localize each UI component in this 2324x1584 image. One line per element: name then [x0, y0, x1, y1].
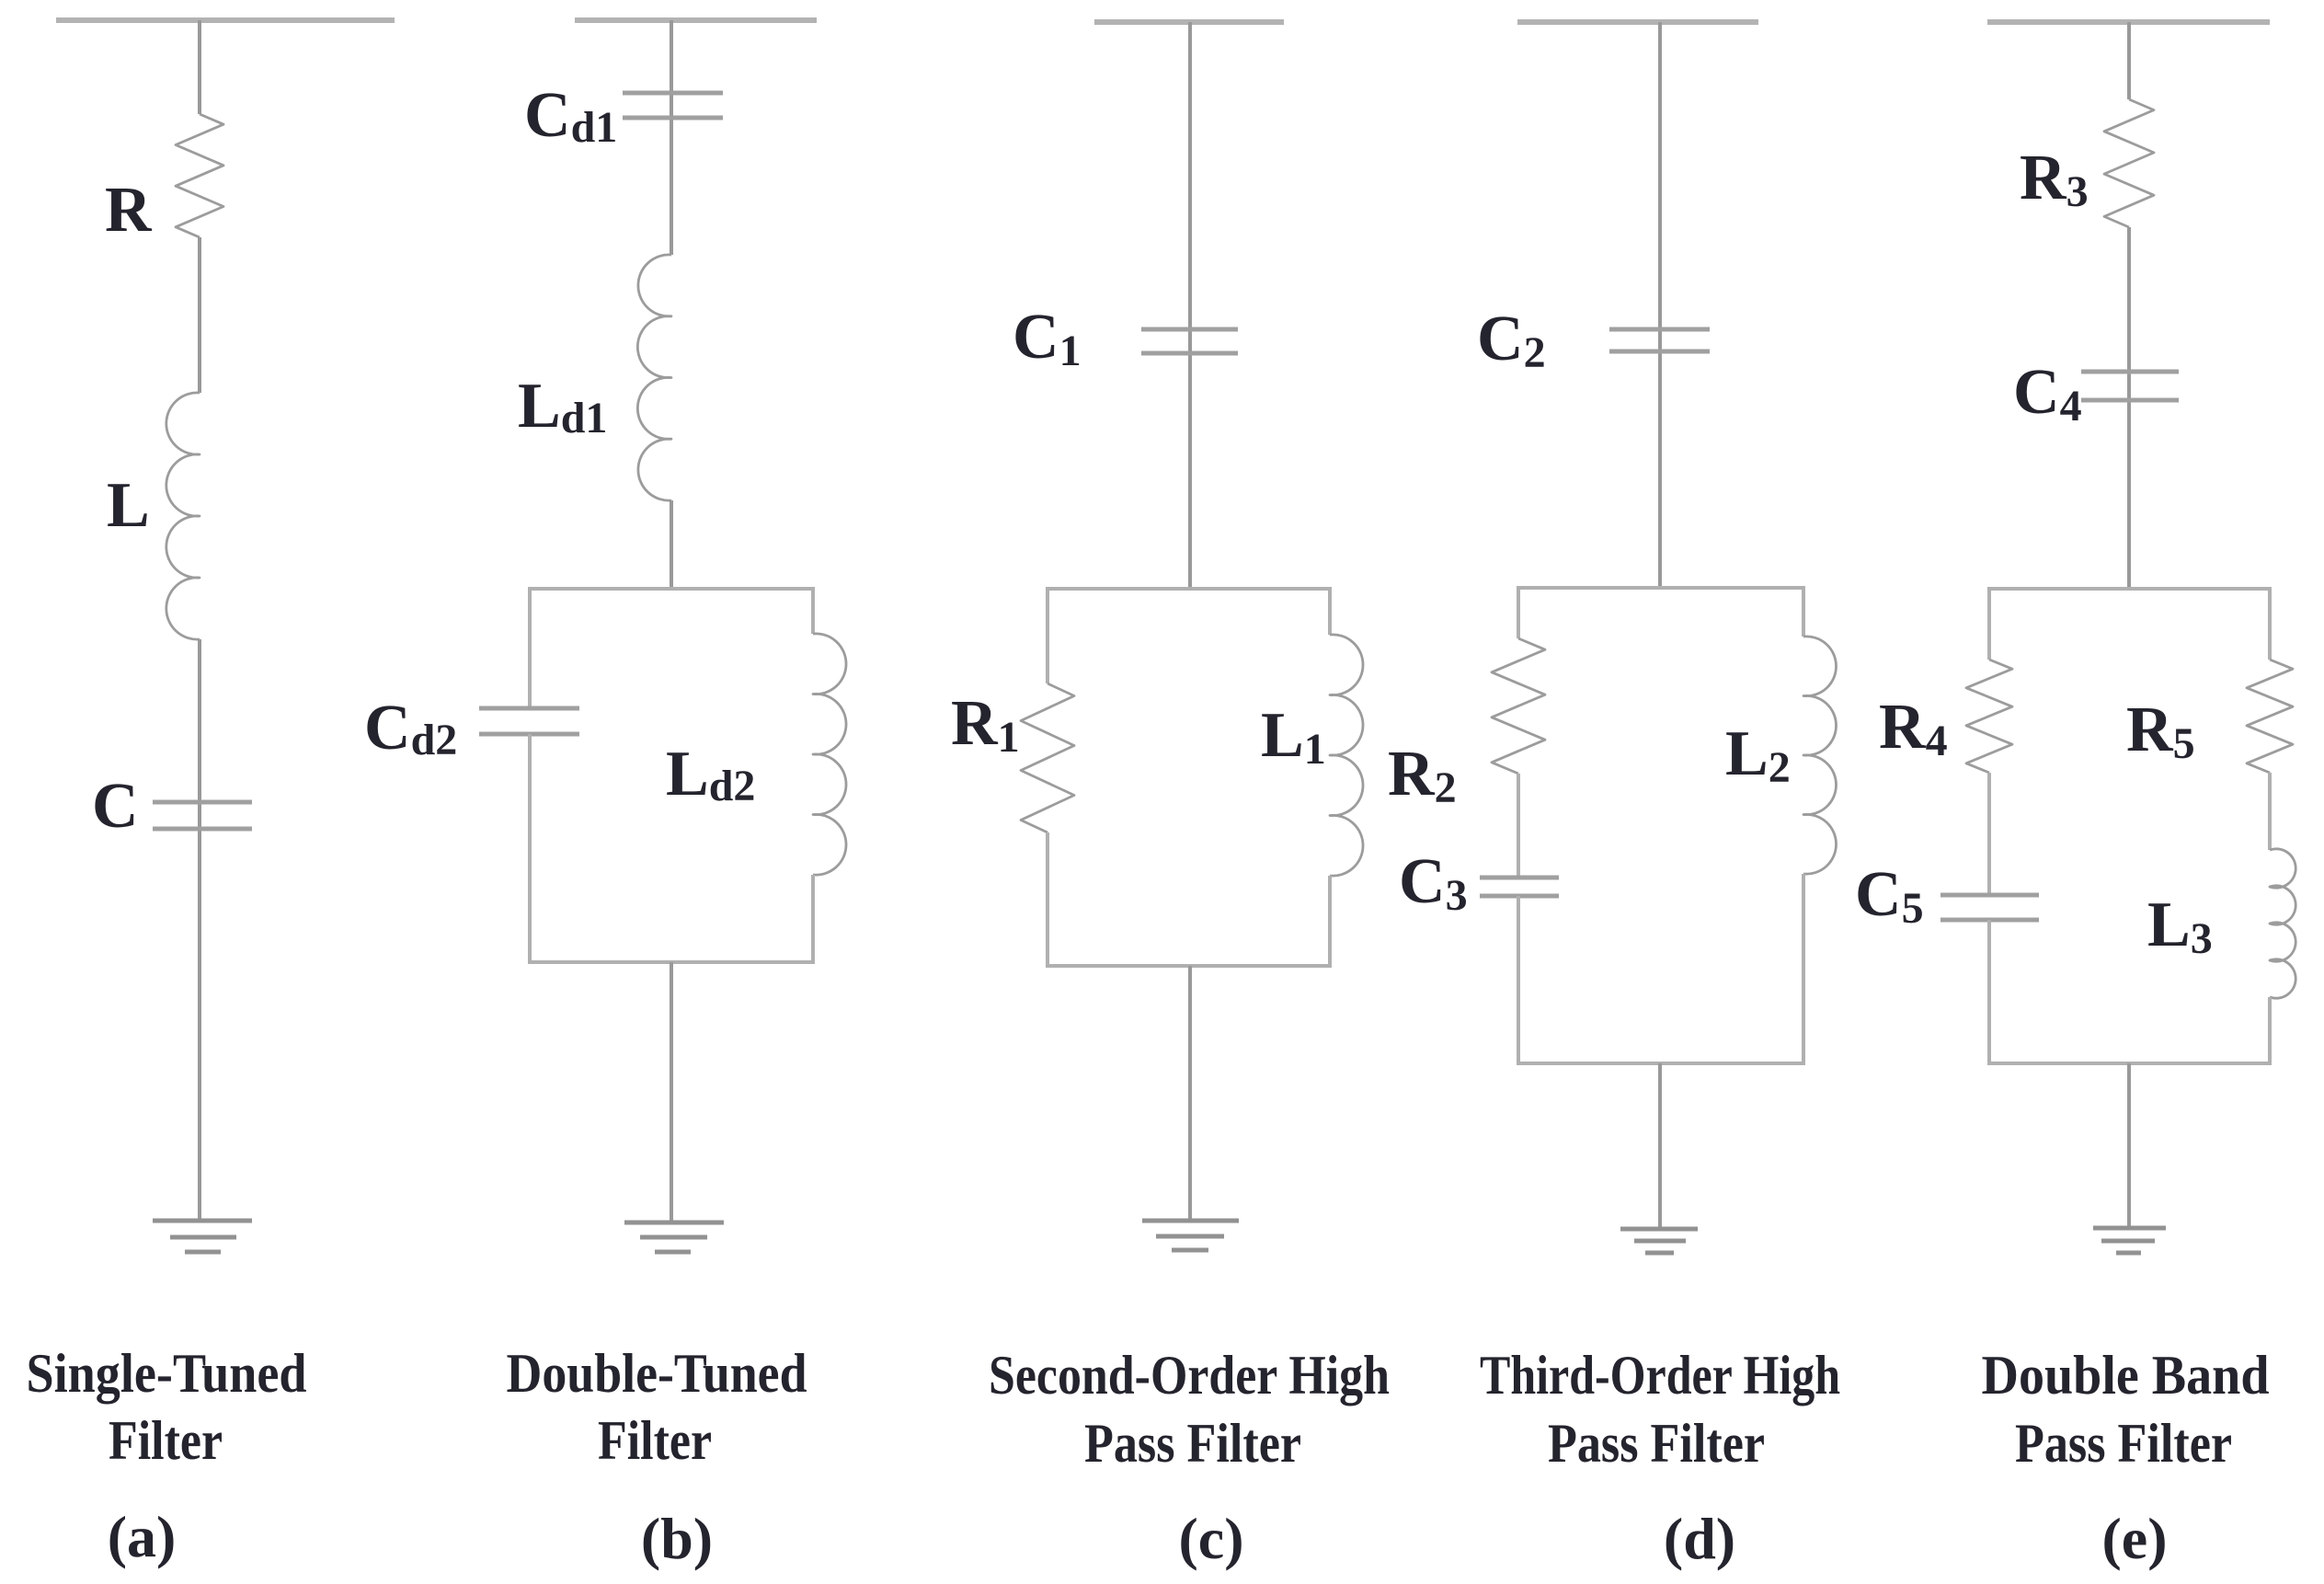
svg-text:Second-Order High: Second-Order High — [989, 1345, 1390, 1406]
resistor R2 — [1492, 638, 1545, 774]
ground (a) — [153, 1221, 252, 1252]
wire box (c) to ground — [1188, 966, 1192, 1221]
svg-text:Pass Filter: Pass Filter — [2015, 1413, 2232, 1474]
capacitor C4 — [2081, 372, 2179, 400]
wire box (e) right branch upper — [2268, 587, 2272, 660]
svg-text:Double Band: Double Band — [1982, 1345, 2270, 1406]
resistor R3 — [2104, 99, 2154, 227]
svg-text:Filter: Filter — [598, 1410, 712, 1471]
wire box (d) left branch lower — [1517, 896, 1520, 1065]
node bus (a) top rail — [56, 17, 395, 23]
wire box (c) right branch upper — [1328, 587, 1332, 635]
caption (b) Double-Tuned Filter — [507, 1343, 807, 1571]
capacitor C5 — [1940, 895, 2039, 920]
wire box (d) right branch lower — [1802, 874, 1805, 1065]
inductor L3 — [2270, 849, 2295, 998]
wire resistor R to inductor L — [198, 237, 201, 393]
capacitor C1 — [1141, 329, 1238, 353]
wire bus to resistor R — [198, 20, 201, 114]
inductor L — [166, 393, 200, 639]
capacitor Cd1 — [623, 93, 723, 118]
wire box (e) right branch lower — [2268, 997, 2272, 1065]
svg-text:(d): (d) — [1664, 1506, 1735, 1571]
ground (b) — [624, 1222, 724, 1252]
wire resistor R2 to capacitor C3 — [1517, 774, 1520, 878]
caption (a) Single-Tuned Filter — [27, 1343, 307, 1569]
wire box (d) to ground — [1658, 1063, 1662, 1229]
node bus (d) top rail — [1517, 19, 1758, 25]
svg-text:Single-Tuned: Single-Tuned — [27, 1343, 307, 1404]
wire box (b) right branch lower — [811, 875, 815, 964]
svg-text:R: R — [105, 175, 153, 246]
wire box (b) to ground — [670, 962, 673, 1222]
wire box (d) bottom side — [1518, 1062, 1803, 1065]
wire bus to resistor R3 — [2127, 22, 2131, 99]
wire box (d) right branch upper — [1802, 586, 1805, 637]
capacitor C — [153, 802, 252, 829]
node bus (e) top rail — [1987, 19, 2270, 25]
wire box (b) bottom side — [530, 960, 813, 964]
wire resistor R3 through capacitor C4 to box (e) — [2127, 227, 2131, 589]
wire box (e) left branch upper — [1987, 587, 1991, 660]
wire resistor R5 to inductor L3 — [2268, 773, 2272, 850]
wire box (b) left branch upper — [528, 587, 532, 708]
capacitor C2 — [1609, 329, 1710, 351]
svg-text:(b): (b) — [641, 1506, 713, 1571]
wire box (c) bottom side — [1048, 964, 1330, 968]
svg-text:Filter: Filter — [109, 1410, 223, 1471]
resistor R5 — [2247, 660, 2293, 773]
inductor Ld1 — [637, 255, 671, 500]
node bus (b) top rail — [575, 17, 817, 23]
caption (c) Second-Order High Pass Filter — [989, 1345, 1390, 1571]
resistor R — [176, 114, 223, 237]
ground (c) — [1142, 1221, 1239, 1250]
wire box (e) bottom side — [1989, 1062, 2270, 1065]
wire box (e) left branch lower — [1987, 920, 1991, 1065]
wire box (b) right branch upper — [811, 587, 815, 634]
svg-text:L: L — [107, 470, 150, 541]
wire box (c) top side — [1048, 587, 1330, 591]
svg-text:(a): (a) — [108, 1504, 177, 1569]
wire box (e) to ground — [2127, 1063, 2131, 1228]
ground (d) — [1620, 1229, 1698, 1253]
svg-text:Pass Filter: Pass Filter — [1084, 1413, 1301, 1474]
inductor L2 — [1803, 637, 1837, 874]
wire box (d) top side — [1518, 586, 1803, 590]
node bus (c) top rail — [1094, 19, 1284, 25]
wire box (c) left branch upper — [1046, 587, 1049, 683]
wire box (b) top side — [530, 587, 813, 591]
wire box (d) left branch upper — [1517, 586, 1520, 638]
caption (e) Double Band Pass Filter — [1982, 1345, 2270, 1571]
svg-text:Double-Tuned: Double-Tuned — [507, 1343, 807, 1404]
wire bus through capacitor Cd1 to inductor Ld1 — [670, 20, 673, 255]
ground (e) — [2093, 1228, 2166, 1253]
wire bus through capacitor C1 to box (c) — [1188, 22, 1192, 589]
resistor R4 — [1966, 660, 2012, 773]
inductor L1 — [1330, 635, 1363, 876]
wire inductor L to ground through capacitor C — [198, 639, 201, 1221]
caption (d) Third-Order High Pass Filter — [1480, 1345, 1840, 1571]
wire box (c) left branch lower — [1046, 832, 1049, 968]
svg-text:Pass Filter: Pass Filter — [1548, 1413, 1765, 1474]
svg-text:(c): (c) — [1178, 1506, 1243, 1571]
wire bus through capacitor C2 to box (d) — [1658, 22, 1662, 588]
wire box (b) left branch lower — [528, 734, 532, 964]
capacitor C3 — [1480, 878, 1559, 896]
wire inductor Ld1 to parallel box (b) — [670, 500, 673, 589]
wire box (c) right branch lower — [1328, 876, 1332, 968]
resistor R1 — [1021, 683, 1074, 832]
svg-text:Third-Order High: Third-Order High — [1480, 1345, 1840, 1406]
wire box (e) top side — [1989, 587, 2270, 591]
capacitor Cd2 — [479, 708, 579, 734]
wire resistor R4 to capacitor C5 — [1987, 773, 1991, 895]
svg-text:(e): (e) — [2101, 1506, 2167, 1571]
svg-text:C: C — [92, 771, 139, 842]
inductor Ld2 — [813, 634, 846, 875]
